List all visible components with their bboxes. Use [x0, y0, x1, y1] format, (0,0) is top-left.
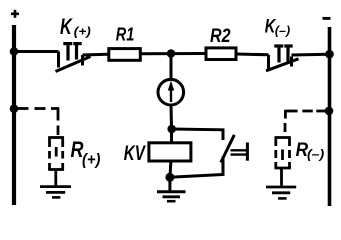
minus terminal: [323, 17, 331, 20]
ground (right): [266, 187, 296, 198]
contact K(-): [266, 46, 299, 71]
svg-text:R1: R1: [116, 25, 135, 45]
wire: R(-) to ground: [280, 168, 283, 186]
ground (centre): [157, 192, 186, 201]
node: junction above KV: [167, 125, 176, 134]
contact K(+): [56, 44, 91, 72]
wire: relay contact bottom branch: [170, 157, 223, 178]
resistor R(-) dashed box: [275, 138, 291, 169]
svg-text:K: K: [60, 14, 73, 39]
wire: left bus to K(+): [14, 50, 59, 53]
plus terminal: [11, 10, 19, 18]
relay contact of KV: [221, 135, 248, 163]
wire: node to KV coil: [170, 129, 173, 142]
resistor R1: [109, 49, 141, 61]
wire: meter to KV node: [170, 105, 174, 129]
wire: junction down to meter: [170, 54, 173, 80]
node: right bus top junction: [325, 50, 334, 59]
dashed wire: left bus to R(+): [18, 109, 59, 136]
svg-text:(+): (+): [82, 152, 100, 169]
wire: R(+) to ground: [54, 170, 57, 187]
wire: node to relay contact (top branch): [172, 129, 223, 140]
ground (left): [40, 187, 71, 198]
svg-text:(–): (–): [307, 147, 324, 162]
wire: R2 to K(-): [237, 53, 269, 57]
wire: K(-) to right bus: [292, 53, 330, 57]
wire: R1 to R2 through centre node: [141, 52, 206, 55]
left bus wire (+): [12, 25, 16, 205]
wire: K(+) to R1: [83, 53, 108, 57]
resistor R2: [206, 48, 236, 60]
right bus wire (-): [328, 27, 332, 206]
meter (current source) circle: [158, 79, 184, 105]
svg-text:KV: KV: [124, 142, 146, 165]
node: junction below KV: [165, 173, 174, 182]
node: right bus lower junction: [325, 107, 334, 116]
node: top centre junction: [167, 49, 176, 58]
relay coil KV: [149, 143, 191, 161]
resistor R(+) dashed box: [48, 138, 64, 170]
svg-text:(–): (–): [275, 26, 290, 38]
node: left bus lower junction: [10, 104, 19, 113]
meter arrow: [168, 81, 174, 103]
svg-text:R2: R2: [210, 26, 231, 47]
wire: KV coil to bottom node: [169, 162, 173, 177]
wire: node to centre ground: [168, 177, 171, 191]
dashed wire: right bus to R(-): [284, 111, 327, 132]
node: left bus top junction: [10, 47, 19, 56]
svg-text:(+): (+): [74, 27, 91, 39]
